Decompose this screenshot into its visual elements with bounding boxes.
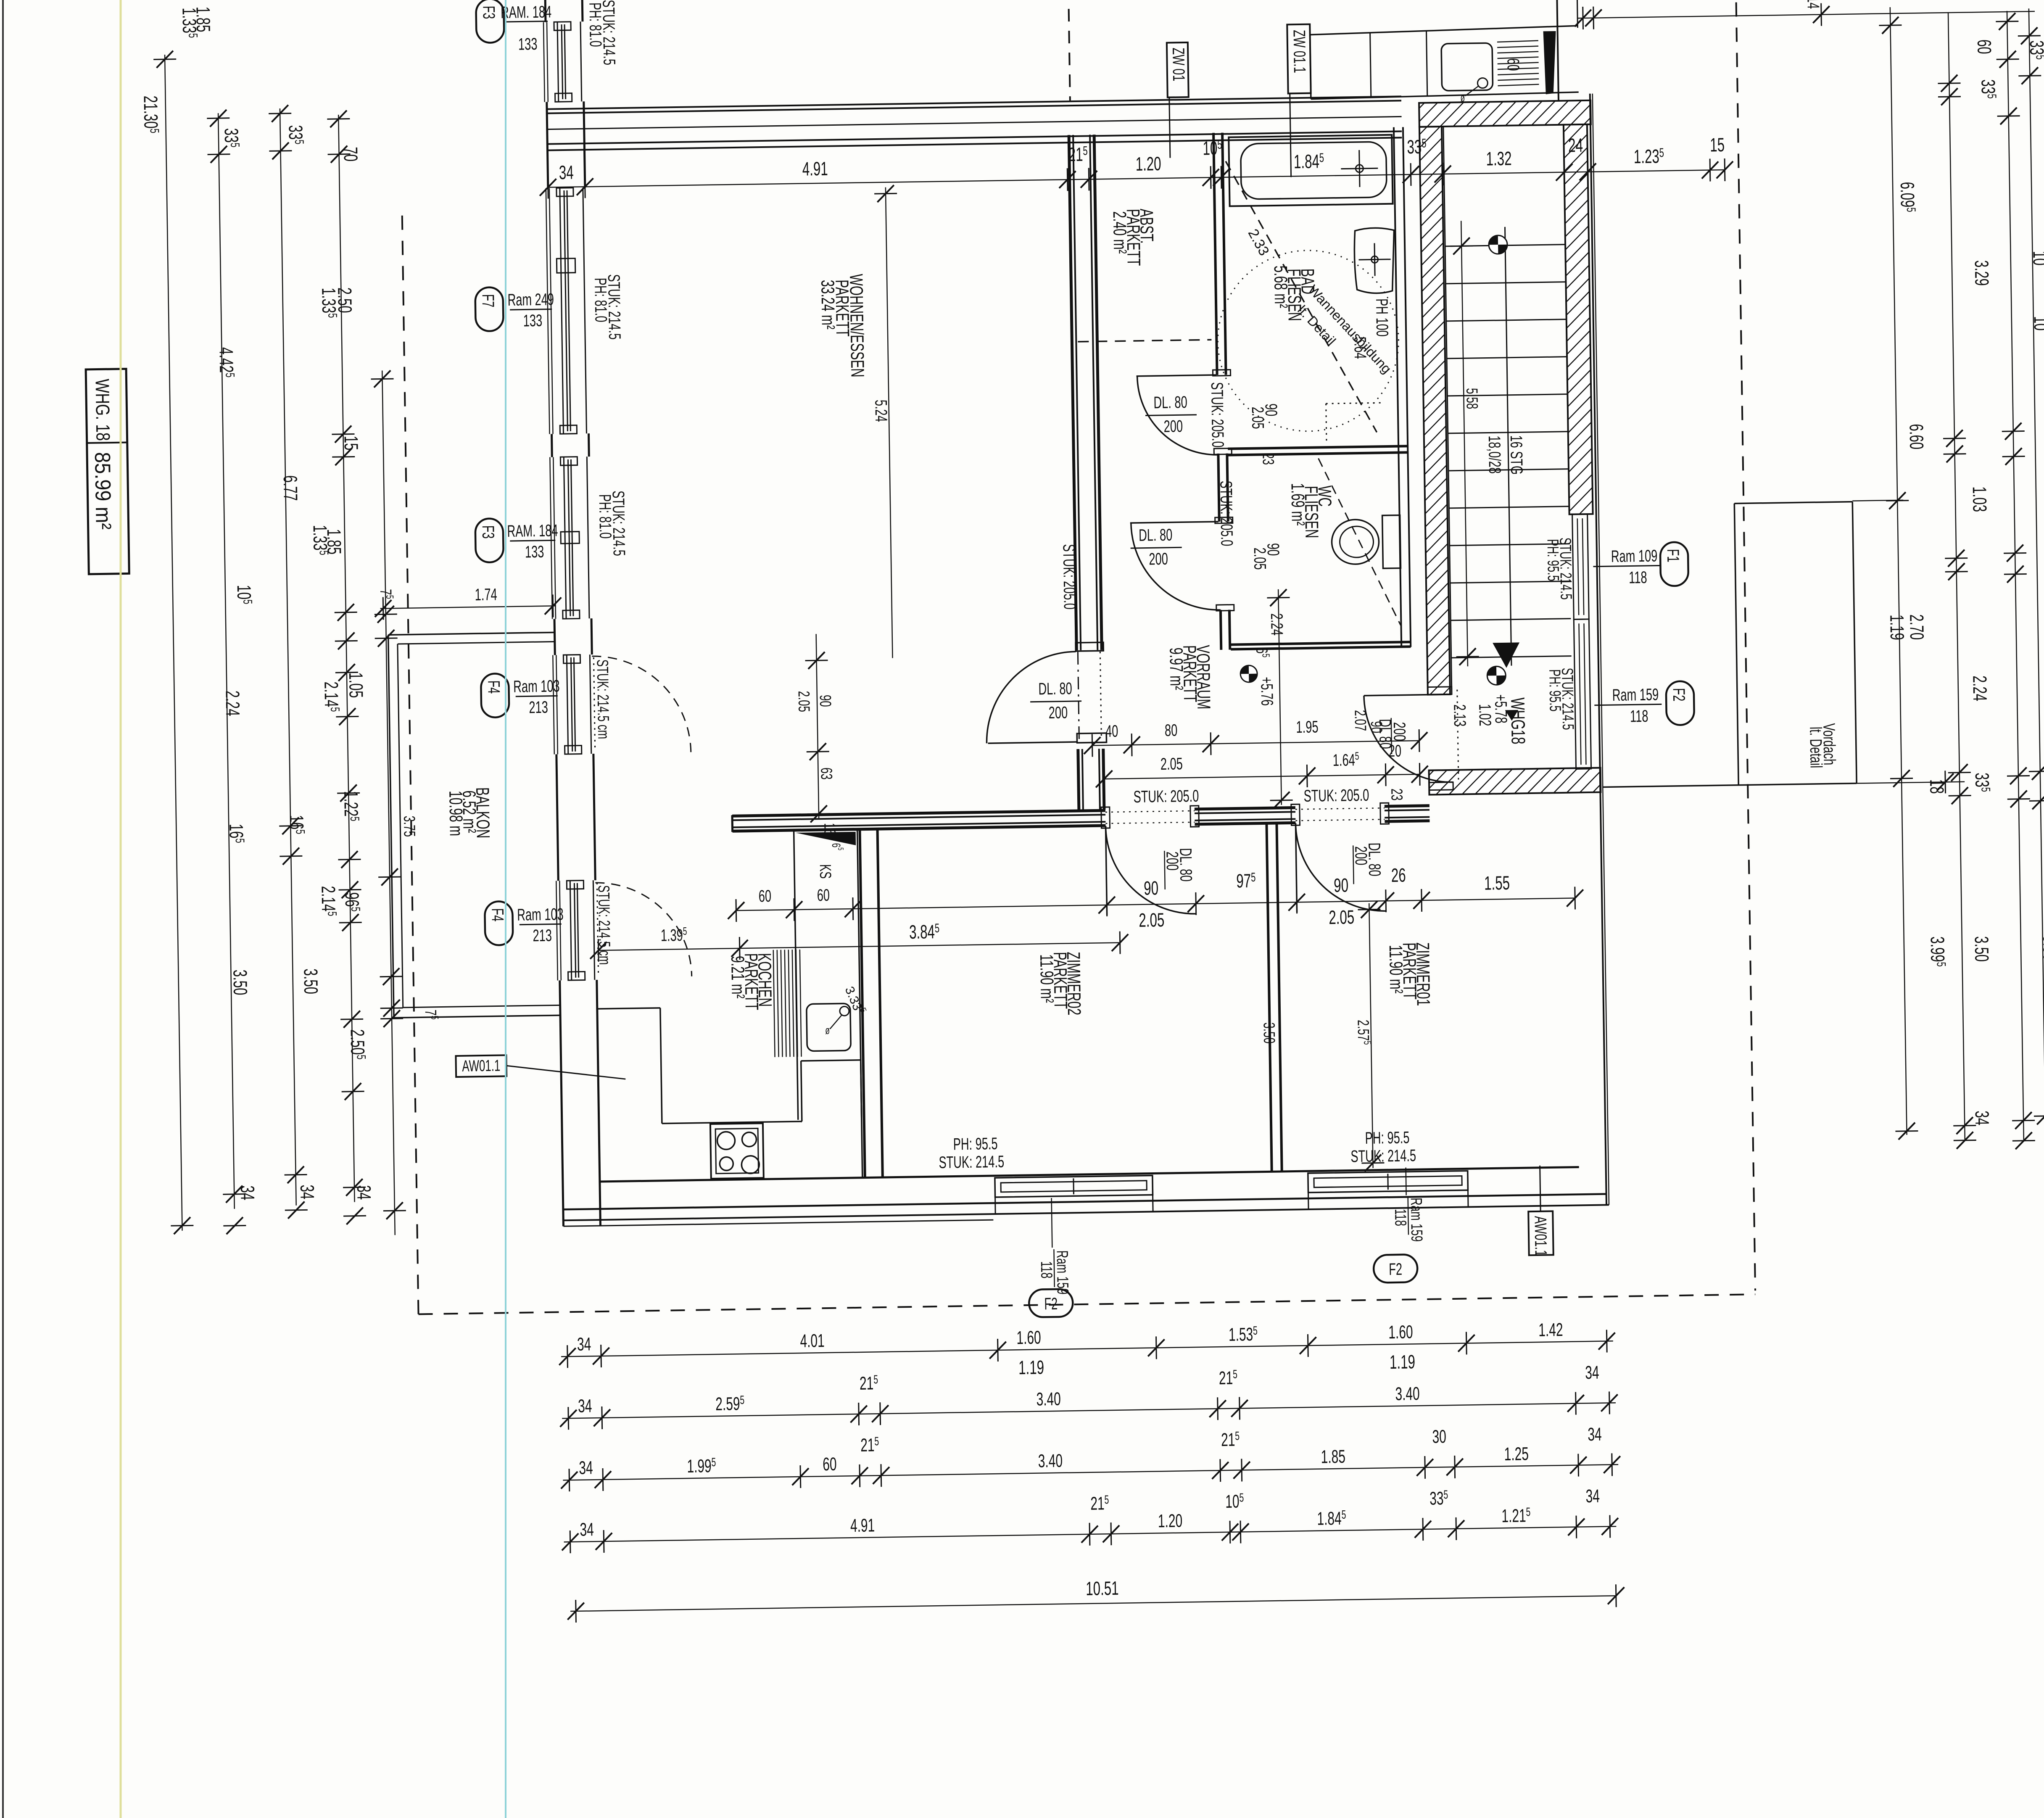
- svg-text:STUK: 214.5: STUK: 214.5: [1350, 1146, 1416, 1166]
- svg-text:34: 34: [353, 1185, 375, 1200]
- svg-text:200: 200: [1149, 550, 1168, 569]
- window F3 mid (RAM.184): [550, 457, 552, 619]
- right chain rA: [1890, 7, 1907, 1135]
- svg-text:3.40: 3.40: [1395, 1383, 1420, 1404]
- svg-text:1.55: 1.55: [1484, 872, 1510, 894]
- balcony door F4 lower swing arc: [595, 881, 691, 978]
- svg-text:F2: F2: [1669, 688, 1688, 701]
- stove: [710, 1123, 764, 1179]
- label Ram109: [1593, 565, 1659, 566]
- svg-text:3.40: 3.40: [1038, 1450, 1063, 1471]
- label Ram103 upper: [516, 696, 558, 696]
- svg-text:5.64: 5.64: [1350, 337, 1369, 359]
- dashed boundary right: [1736, 0, 1755, 1290]
- bottom dim chain y3651: [564, 1526, 1617, 1542]
- bottom total chain: [570, 1596, 1617, 1611]
- svg-text:213: 213: [533, 926, 552, 945]
- svg-text:2.05: 2.05: [795, 691, 813, 712]
- right chain rC: [2007, 11, 2024, 1142]
- scan edge line: [2, 0, 4, 1818]
- svg-text:PH: 81.0: PH: 81.0: [591, 277, 610, 322]
- vorraum chain row1: [1092, 741, 1419, 746]
- svg-text:133: 133: [523, 311, 543, 330]
- wall A door jamb blocks: [1076, 642, 1103, 651]
- svg-text:PH: 95.5: PH: 95.5: [1544, 539, 1562, 581]
- svg-text:60: 60: [1503, 58, 1522, 71]
- svg-text:STUK: 214.5: STUK: 214.5: [939, 1153, 1004, 1172]
- wohnen vchain upper: [886, 187, 893, 658]
- svg-text:6.60: 6.60: [1905, 424, 1927, 450]
- left exterior wall: [544, 0, 547, 22]
- svg-text:9.21 m²: 9.21 m²: [728, 956, 749, 999]
- left chain c5 balcony: [382, 370, 395, 1235]
- svg-text:6.77: 6.77: [279, 475, 301, 501]
- left chain c3: [280, 108, 296, 1206]
- svg-text:+5.76: +5.76: [1257, 677, 1276, 706]
- svg-text:200: 200: [1163, 417, 1183, 436]
- svg-text:F3: F3: [478, 525, 497, 538]
- svg-text:ø: ø: [825, 1024, 830, 1036]
- svg-text:10.98 m: 10.98 m: [446, 791, 467, 836]
- stair centroid marker bottom: [1487, 666, 1506, 685]
- svg-text:5.24: 5.24: [871, 400, 890, 422]
- symbol F2 bottom left: [1029, 1289, 1073, 1317]
- svg-text:118: 118: [1038, 1261, 1056, 1279]
- svg-text:34: 34: [559, 162, 574, 184]
- door BAD leaf+arc: [1137, 375, 1216, 376]
- BAD dotted turning circle: [1216, 249, 1400, 433]
- svg-text:2.05: 2.05: [1250, 547, 1269, 570]
- svg-text:DL. 80: DL. 80: [1153, 393, 1187, 412]
- svg-text:2.24: 2.24: [222, 690, 243, 716]
- svg-text:2.24: 2.24: [1969, 675, 1991, 702]
- svg-text:ø: ø: [1460, 92, 1465, 104]
- BAD dashed niche: [1326, 404, 1327, 441]
- wall KOCHEN/ZIMMER02: [860, 830, 865, 1178]
- svg-text:STUK: 205.0: STUK: 205.0: [1216, 480, 1236, 546]
- door WC leaf+arc: [1130, 522, 1218, 523]
- left chain c2: [218, 113, 235, 1209]
- top dim chain line: [548, 170, 1725, 187]
- top dividing wall ZW01: [547, 96, 1401, 109]
- svg-text:1.95: 1.95: [1296, 718, 1319, 736]
- svg-text:15: 15: [1710, 134, 1725, 156]
- svg-text:2.07: 2.07: [1351, 710, 1369, 731]
- svg-text:PH: 81.0: PH: 81.0: [586, 3, 605, 47]
- symbol F2 bottom right: [1374, 1254, 1418, 1283]
- vordach bottom tie line: [1857, 782, 1965, 784]
- svg-text:34: 34: [579, 1457, 593, 1478]
- door to ZIMMER01 leaf+arc: [1295, 823, 1297, 912]
- stair hatch top wall: [1419, 100, 1591, 127]
- svg-text:133: 133: [525, 543, 544, 562]
- label Ram249: [510, 309, 552, 309]
- svg-text:34: 34: [578, 1396, 592, 1417]
- svg-text:34: 34: [296, 1185, 318, 1200]
- symbol F3 top: [476, 0, 504, 43]
- vorraum vchain 2.24: [1278, 589, 1282, 805]
- zimmer vchain: [1369, 903, 1373, 1168]
- svg-text:90: 90: [1334, 875, 1349, 897]
- symbol F7: [475, 287, 504, 331]
- svg-text:200: 200: [1390, 722, 1409, 741]
- svg-text:30: 30: [1432, 1426, 1446, 1447]
- BAD dashed diagonal 2.33: [1226, 159, 1377, 434]
- svg-text:18,0/28: 18,0/28: [1485, 435, 1504, 474]
- svg-text:3.29: 3.29: [1970, 260, 1992, 286]
- bottom exterior wall: [600, 1167, 1579, 1182]
- svg-text:1.60: 1.60: [1388, 1322, 1413, 1343]
- svg-text:F1: F1: [1664, 549, 1683, 562]
- vordach outline: [1734, 504, 1738, 785]
- svg-text:2.40 m²: 2.40 m²: [1109, 211, 1131, 254]
- svg-text:90: 90: [1144, 877, 1159, 899]
- box ZW01: [1167, 42, 1189, 98]
- BAD/WC divider wall: [1228, 446, 1408, 449]
- yellow scan line: [120, 0, 122, 1818]
- svg-text:14: 14: [1804, 0, 1822, 9]
- stair hatch bottom band: [1429, 768, 1601, 795]
- vorraum centroid: [1240, 665, 1258, 683]
- svg-text:F4: F4: [488, 908, 507, 921]
- svg-text:1.20: 1.20: [1135, 153, 1161, 175]
- label RAM184 mid: [510, 540, 555, 541]
- svg-text:1.20: 1.20: [1158, 1510, 1183, 1531]
- box AW01.1 right: [1528, 1211, 1553, 1255]
- svg-text:85.99 m²: 85.99 m²: [90, 452, 116, 530]
- svg-text:Ram 249: Ram 249: [507, 290, 554, 309]
- svg-text:200: 200: [1048, 703, 1068, 722]
- room chain row y2155: [736, 898, 1575, 911]
- svg-text:STUK: 214.5 cm: STUK: 214.5 cm: [593, 659, 612, 739]
- window F7 (Ram 249): [546, 188, 550, 434]
- symbol F1 stair: [1660, 542, 1689, 586]
- label Ram103 lower: [520, 924, 562, 924]
- neighbour drainer: [1497, 41, 1538, 42]
- svg-text:2.05: 2.05: [1329, 906, 1355, 928]
- svg-text:33.24 m²: 33.24 m²: [818, 280, 839, 330]
- svg-text:PH: 95.5: PH: 95.5: [953, 1135, 997, 1154]
- kitchen chain row2: [599, 943, 1120, 950]
- vordach top tie line: [1852, 500, 1903, 501]
- dashed boundary left (balcony overhang): [402, 216, 419, 1314]
- bottom dim chain y3357: [562, 1403, 1616, 1418]
- svg-text:11.90 m²: 11.90 m²: [1385, 945, 1407, 994]
- svg-text:60: 60: [823, 1454, 837, 1475]
- svg-text:90: 90: [1368, 721, 1386, 733]
- svg-text:ZW 01.1: ZW 01.1: [1290, 30, 1309, 73]
- svg-text:3.50: 3.50: [1260, 1022, 1278, 1044]
- fridge tall unit KS: [794, 831, 798, 1120]
- svg-text:F3: F3: [479, 5, 498, 19]
- neighbour party wall line: [1557, 0, 1559, 101]
- svg-text:PH: 95.5: PH: 95.5: [1365, 1128, 1409, 1148]
- balcony door F4 upper swing arc: [592, 655, 691, 754]
- svg-text:4.91: 4.91: [850, 1515, 875, 1536]
- stair right wall outer skin: [1590, 94, 1606, 1205]
- svg-text:WHG. 18: WHG. 18: [91, 379, 113, 441]
- svg-text:26: 26: [1391, 865, 1406, 887]
- svg-text:200: 200: [1163, 851, 1182, 871]
- bottom window F2 right (Ram 159): [1308, 1171, 1468, 1193]
- apartment division dashed line: [1068, 0, 1070, 100]
- svg-text:60: 60: [758, 887, 771, 906]
- svg-text:34: 34: [1585, 1362, 1599, 1383]
- svg-text:STUK: 205.0: STUK: 205.0: [1133, 787, 1199, 807]
- neighbour fridge wedge: [1543, 31, 1557, 94]
- svg-text:F7: F7: [478, 294, 497, 307]
- svg-text:200: 200: [1351, 846, 1370, 865]
- svg-text:2.13: 2.13: [1450, 704, 1469, 727]
- left chain c4: [338, 115, 354, 1202]
- svg-text:4.01: 4.01: [800, 1330, 825, 1351]
- svg-text:4.91: 4.91: [802, 158, 828, 180]
- BAD washbasin: [1354, 228, 1395, 294]
- svg-text:STUK: 205.0: STUK: 205.0: [1303, 786, 1369, 806]
- svg-text:63: 63: [818, 768, 836, 780]
- stair centroid marker top: [1489, 235, 1508, 254]
- svg-text:RAM. 184: RAM. 184: [501, 3, 552, 22]
- ABST dashed ceiling line: [1078, 340, 1211, 342]
- bottom window F2 left (Ram 159): [995, 1176, 1153, 1198]
- stair hatch left wall: [1419, 127, 1450, 695]
- svg-text:STUK: 214.5 cm: STUK: 214.5 cm: [595, 885, 614, 965]
- svg-text:1.03: 1.03: [1968, 486, 1990, 512]
- WC bottom wall: [1231, 642, 1411, 644]
- svg-text:AW01.1: AW01.1: [1531, 1216, 1550, 1256]
- svg-text:1.25: 1.25: [1504, 1443, 1529, 1464]
- svg-text:60: 60: [817, 886, 830, 905]
- svg-text:1.19: 1.19: [1390, 1351, 1416, 1373]
- svg-text:F4: F4: [484, 680, 503, 694]
- svg-text:Ram 159: Ram 159: [1612, 685, 1659, 705]
- svg-text:RAM. 184: RAM. 184: [507, 521, 558, 541]
- wohnen vchain lower: [816, 634, 819, 819]
- svg-text:118: 118: [1392, 1208, 1410, 1226]
- svg-text:23: 23: [1259, 453, 1277, 465]
- label Ram159 stair: [1594, 704, 1662, 705]
- svg-text:PH: 81.0: PH: 81.0: [595, 494, 615, 538]
- svg-text:PH 100: PH 100: [1372, 298, 1392, 337]
- svg-text:1.69 m²: 1.69 m²: [1287, 483, 1309, 526]
- svg-text:AW01.1: AW01.1: [462, 1057, 501, 1075]
- svg-text:PH: 95.5: PH: 95.5: [1546, 669, 1564, 712]
- svg-text:1.60: 1.60: [1016, 1327, 1041, 1348]
- svg-text:1.02: 1.02: [1475, 704, 1494, 726]
- wall ABST/BAD partition: [1213, 133, 1217, 375]
- svg-text:34: 34: [577, 1334, 591, 1355]
- svg-text:40: 40: [1105, 722, 1118, 741]
- wall A door leaf+arc DL80: [988, 742, 1077, 743]
- svg-text:3.50: 3.50: [1970, 936, 1992, 962]
- window F3 top (RAM.184): [543, 22, 545, 102]
- entry door leaf+arc WHG18: [1364, 694, 1452, 696]
- svg-text:10: 10: [2030, 316, 2044, 331]
- svg-text:DL. 80: DL. 80: [1139, 526, 1173, 545]
- stair right wall window F1: [1572, 514, 1589, 620]
- svg-text:Ram 103: Ram 103: [517, 905, 564, 924]
- cyan scan line: [505, 0, 506, 1818]
- svg-text:21.305: 21.305: [140, 95, 162, 133]
- svg-text:9.97 m²: 9.97 m²: [1166, 647, 1187, 690]
- right chain rD: [2029, 8, 2044, 1139]
- svg-text:10: 10: [2029, 251, 2044, 266]
- bathtub: [1229, 135, 1393, 206]
- svg-text:80: 80: [1165, 721, 1178, 740]
- svg-text:34: 34: [580, 1519, 594, 1540]
- svg-text:1.19: 1.19: [1018, 1356, 1044, 1378]
- dashed boundary bottom: [419, 1294, 1756, 1314]
- symbol F2 stair: [1666, 681, 1695, 725]
- svg-text:20: 20: [1388, 742, 1401, 761]
- stair length chain 5.58: [1461, 221, 1468, 666]
- svg-text:2.05: 2.05: [1248, 406, 1267, 429]
- symbol F3 mid: [475, 518, 504, 562]
- left chain c1: [165, 55, 182, 1231]
- top right chain: [1577, 11, 2035, 18]
- svg-text:18: 18: [1926, 779, 1948, 794]
- svg-text:DL. 80: DL. 80: [1038, 679, 1072, 699]
- box AW01.1 left: [456, 1055, 506, 1077]
- stair direction arrow: [1493, 642, 1520, 668]
- stair center line: [1505, 227, 1511, 666]
- kitchen counter outline: [597, 1008, 660, 1009]
- WC dashed diagonal: [1319, 457, 1401, 627]
- svg-text:1.74: 1.74: [475, 585, 497, 604]
- svg-text:2.24: 2.24: [1267, 613, 1286, 636]
- svg-text:KS: KS: [817, 864, 835, 879]
- BAD east wall: [1394, 127, 1401, 647]
- WC toilet: [1332, 519, 1379, 565]
- symbol F4 upper: [481, 673, 509, 718]
- svg-text:5.58: 5.58: [1463, 388, 1481, 409]
- entry door jambs: [1428, 687, 1452, 695]
- interior wall A WOHNEN/VORRAUM: [1069, 135, 1076, 650]
- svg-text:133: 133: [518, 35, 538, 54]
- svg-text:1.42: 1.42: [1538, 1319, 1563, 1340]
- svg-text:Ram 109: Ram 109: [1611, 546, 1658, 566]
- neighbour sink: [1441, 43, 1493, 91]
- svg-text:ZW 01: ZW 01: [1169, 47, 1188, 82]
- stair right wall window F2: [1574, 619, 1591, 769]
- svg-text:3.50: 3.50: [300, 968, 322, 995]
- wall ZIMMER02/ZIMMER01: [1266, 823, 1271, 1172]
- WHG label box: [86, 369, 129, 574]
- symbol F4 lower: [485, 901, 513, 945]
- svg-text:15: 15: [340, 435, 362, 451]
- svg-text:3.75: 3.75: [401, 815, 419, 837]
- svg-text:34: 34: [1585, 1486, 1600, 1507]
- svg-text:Ram 103: Ram 103: [513, 677, 560, 696]
- kitchen drainer lines: [773, 950, 775, 1057]
- vorraum chain row2: [1104, 774, 1420, 779]
- svg-text:3.40: 3.40: [1036, 1388, 1061, 1409]
- balcony dim 1.74: [380, 606, 556, 608]
- svg-text:34: 34: [1588, 1424, 1602, 1445]
- svg-text:23: 23: [1388, 788, 1406, 800]
- svg-text:90: 90: [817, 695, 835, 707]
- balcony slab: [388, 632, 555, 635]
- svg-text:3.50: 3.50: [2039, 935, 2044, 961]
- svg-text:1.05: 1.05: [345, 672, 367, 698]
- box ZW01.1: [1287, 24, 1311, 94]
- svg-text:3.50: 3.50: [229, 969, 251, 995]
- wall B door jambs: [1101, 807, 1110, 828]
- wall B door openings dotted lintels: [1105, 811, 1195, 812]
- svg-text:F2: F2: [1389, 1260, 1402, 1279]
- svg-text:lt. Detail: lt. Detail: [1806, 727, 1825, 768]
- svg-text:213: 213: [529, 698, 548, 717]
- svg-text:5.68 m²: 5.68 m²: [1270, 265, 1292, 308]
- balcony door F4 upper (Ram 103): [553, 655, 554, 755]
- svg-text:16 STG: 16 STG: [1506, 435, 1526, 475]
- svg-text:STUK: 205.0: STUK: 205.0: [1208, 382, 1227, 448]
- svg-text:118: 118: [1629, 568, 1647, 587]
- svg-text:118: 118: [1630, 707, 1648, 726]
- right chain rB: [1948, 12, 1965, 1141]
- svg-text:1.85: 1.85: [192, 6, 214, 32]
- neighbour kitchen band: [1310, 26, 1577, 34]
- entry dotted line: [1457, 690, 1458, 780]
- svg-text:1.85: 1.85: [1321, 1446, 1345, 1467]
- svg-text:70: 70: [340, 147, 361, 162]
- svg-text:F2: F2: [1044, 1295, 1058, 1314]
- svg-text:2.70: 2.70: [1906, 614, 1928, 640]
- svg-text:Ram 159: Ram 159: [1053, 1250, 1072, 1294]
- stair hatch right wall upper: [1564, 124, 1593, 515]
- bottom dim chain y3210: [561, 1341, 1613, 1356]
- svg-text:10.51: 10.51: [1086, 1578, 1119, 1600]
- svg-text:34: 34: [1971, 1111, 1993, 1126]
- bottom dim chain y3504: [563, 1464, 1618, 1480]
- kitchen sink: [807, 1003, 851, 1051]
- svg-text:1.19: 1.19: [1886, 615, 1908, 641]
- stair steps: [1445, 245, 1565, 246]
- svg-text:STUK: 205.0: STUK: 205.0: [1059, 544, 1079, 610]
- svg-text:2.05: 2.05: [1160, 755, 1183, 773]
- balcony door F4 lower (Ram 103): [556, 881, 558, 980]
- svg-text:2.05: 2.05: [1139, 909, 1165, 931]
- svg-text:34: 34: [236, 1185, 258, 1201]
- svg-text:Ram 159: Ram 159: [1408, 1198, 1426, 1242]
- svg-text:24: 24: [1568, 135, 1583, 156]
- svg-text:34: 34: [2041, 1109, 2044, 1124]
- door to ZIMMER02 leaf+arc: [1105, 826, 1107, 915]
- label RAM184 top: [505, 21, 548, 22]
- svg-text:1.32: 1.32: [1486, 148, 1512, 170]
- mid wall B: [732, 810, 1105, 816]
- svg-text:11.90 m²: 11.90 m²: [1037, 954, 1058, 1003]
- svg-text:60: 60: [1973, 39, 1995, 54]
